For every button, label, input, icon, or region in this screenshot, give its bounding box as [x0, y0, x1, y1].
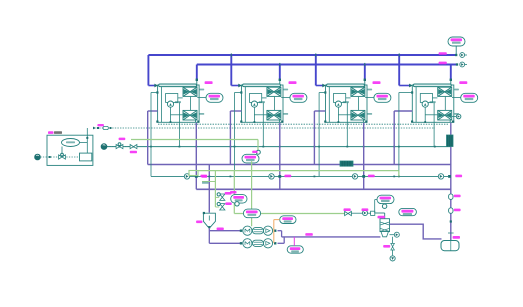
flow meter FM1: [184, 174, 189, 179]
pink tag M5: [362, 208, 369, 211]
wire unit2 inner drop: [262, 122, 264, 146]
stream label capsule unit U3: [374, 93, 391, 102]
wire unit2 liquid return: [230, 110, 241, 112]
wire vessel feed drop: [208, 165, 210, 213]
main column from unit4: [450, 123, 452, 241]
green stub y181.5: [202, 181, 215, 183]
stream capsule K3: [287, 246, 303, 253]
economizer E1: [447, 135, 454, 147]
stream label capsule unit U2: [290, 93, 307, 102]
wire bus2 drop unit2: [279, 65, 281, 80]
pink tag colA: [454, 195, 461, 198]
green feed line y139.5: [131, 139, 258, 141]
teal link to HX top: [375, 212, 385, 214]
feed source F1: [35, 154, 41, 160]
stream bus B2 (second recycle header): [197, 64, 457, 66]
pink tag bottoms: [217, 228, 224, 231]
green run y213.5: [234, 213, 347, 215]
wire unit2 side draw: [234, 93, 236, 177]
pink tag colB: [454, 209, 461, 212]
wire unit1 side draw: [150, 93, 152, 177]
dotted stream line y128: [94, 127, 435, 129]
wire unit3 side draw: [318, 93, 320, 177]
pink tag VC1: [225, 192, 232, 195]
feed source F2: [101, 144, 107, 150]
wire unit3 liquid return: [314, 110, 325, 112]
capsule train B: [280, 216, 296, 224]
tee pad T2: [278, 175, 281, 178]
main gas bus y146.6: [104, 146, 451, 148]
relief valve: [391, 243, 395, 250]
train outlet join: [278, 230, 282, 232]
compressor train B: [240, 242, 242, 244]
tee pad T4: [448, 175, 451, 178]
feed block label: [48, 131, 54, 134]
pink tag meter 4: [455, 175, 462, 178]
wire bus1 drop unit1: [147, 55, 149, 86]
pink tag meter 2: [284, 175, 291, 178]
meter under K4: [382, 204, 386, 208]
unit U3 (expander/compressor stage): [324, 84, 374, 123]
HX outlet to drum: [390, 224, 442, 239]
pink tag left of spec box: [202, 175, 208, 178]
pink tag discharge: [305, 233, 313, 236]
feed valve F1: [59, 155, 66, 159]
product sink P1: [390, 256, 395, 261]
wire unit4 liquid return: [394, 110, 412, 112]
green drop x398.8: [398, 171, 400, 177]
pink tag F2 top: [119, 138, 126, 141]
wire bus2 drop unit1: [196, 65, 198, 80]
unit U2 (expander/compressor stage): [240, 84, 290, 123]
feed line F2: [107, 146, 131, 148]
feed inner rect: [80, 153, 92, 161]
pink tag unit U2: [289, 81, 297, 84]
wire unit4 inner drop: [433, 122, 435, 146]
pink tag feed line: [97, 124, 104, 126]
capsule K2: [231, 195, 247, 204]
column valve A: [449, 194, 453, 200]
wire unit1 bottoms drop: [195, 123, 197, 190]
flow meter FM3: [352, 174, 357, 179]
stream bus B1 (top recycle header): [148, 54, 457, 56]
heat exchanger HX1: [380, 219, 390, 232]
unit4 outlet meter: [452, 116, 456, 118]
capsule product: [448, 37, 465, 46]
wire bus2 drop unit3: [364, 65, 366, 80]
check device: [371, 211, 375, 215]
pink tag valve: [344, 208, 351, 211]
pink tag relief: [383, 245, 390, 248]
intercooler block on header: [340, 161, 353, 166]
feed ellipse stem: [61, 147, 63, 154]
column tick: [448, 232, 454, 234]
flow meter FM4: [438, 174, 443, 179]
feed block box: [47, 135, 93, 165]
wire bus1 drop unit3: [315, 55, 317, 86]
unit U1 (expander/compressor stage): [156, 84, 206, 123]
product sink S2: [456, 63, 458, 65]
wire unit1 liquid return: [148, 110, 158, 112]
stream label capsule unit U4: [461, 93, 478, 102]
capsule K5: [399, 208, 417, 215]
compressor train A: [240, 230, 242, 232]
pink tag unit U3: [373, 81, 381, 84]
pink tag meter 1: [200, 175, 207, 178]
green drop to train: [251, 161, 253, 226]
purple header yA: [148, 164, 451, 166]
pink tag bus2: [439, 62, 447, 65]
capsule stem: [455, 46, 457, 54]
pink tag F2 bottom: [130, 151, 137, 154]
capsule K4: [377, 195, 394, 203]
row link a: [351, 212, 362, 214]
teal drop from K4: [374, 200, 376, 213]
green drop x215.4: [214, 171, 216, 207]
purple header yB: [196, 188, 450, 190]
feed riser to line y128: [86, 128, 88, 143]
pink tag drum: [453, 236, 460, 239]
flow meter FM2: [269, 174, 274, 179]
tee pad T1: [195, 175, 198, 178]
valve cluster VC2: [220, 204, 225, 210]
spec box: [189, 171, 198, 176]
valve on green run: [345, 211, 352, 215]
feed glyphs on line y128: [93, 127, 96, 130]
relief line: [392, 237, 394, 256]
teal tag under spec box: [202, 182, 209, 184]
feed line F1: [40, 156, 79, 158]
feed valve F2a: [116, 144, 123, 148]
capsule train A: [243, 209, 260, 218]
green drop x234.3: [233, 171, 235, 214]
wire bus2 drop unit4: [450, 65, 452, 80]
row link b: [368, 212, 371, 214]
dotted stream line y124: [158, 123, 449, 125]
valve cluster VC1: [220, 194, 225, 200]
wire unit3 inner drop: [346, 122, 348, 146]
pink tag bus1: [439, 52, 447, 55]
wire unit4 side draw: [398, 93, 400, 177]
wire unit3 bottoms drop: [363, 123, 365, 190]
wire unit2 bottoms drop: [279, 123, 281, 190]
pink tag vessel: [196, 221, 202, 224]
stream label capsule unit U1: [206, 93, 223, 102]
unit U4 (expander/compressor stage): [411, 84, 461, 123]
pink tag unit U1: [205, 81, 213, 84]
product sink S1: [460, 53, 465, 58]
vessel bottoms line: [208, 228, 210, 243]
meter under K2: [235, 202, 239, 206]
feed valve F2b: [130, 144, 137, 148]
flash drum D-1: [441, 241, 459, 251]
pink tag VC2: [225, 202, 231, 205]
bus junction ticks: [230, 53, 232, 56]
meter M6: [394, 232, 399, 237]
pink tag K2: [230, 191, 237, 194]
pink tag meter 3: [368, 175, 375, 178]
meter by K1: [256, 150, 260, 154]
capsule stub: [293, 237, 295, 246]
pink tag HX1: [378, 216, 386, 219]
wire unit1 inner drop: [178, 122, 180, 146]
wire bus1 drop unit2: [230, 55, 232, 86]
separator vessel V-1: [203, 213, 215, 227]
feed internal link: [80, 142, 88, 144]
tee pad T3: [362, 175, 365, 178]
feed compressor ellipse: [62, 139, 80, 147]
green elbow to capsule: [257, 140, 259, 152]
orange energy line: [273, 220, 275, 244]
capsule K1: [242, 154, 259, 163]
column valve B: [449, 208, 453, 214]
wire bus1 drop unit4: [398, 55, 400, 86]
discharge line y236.9: [282, 236, 381, 238]
pink tag unit U4: [459, 81, 467, 84]
green header y170.6: [198, 170, 399, 172]
vent bus y176.4: [151, 175, 448, 177]
meter M5: [362, 210, 367, 215]
